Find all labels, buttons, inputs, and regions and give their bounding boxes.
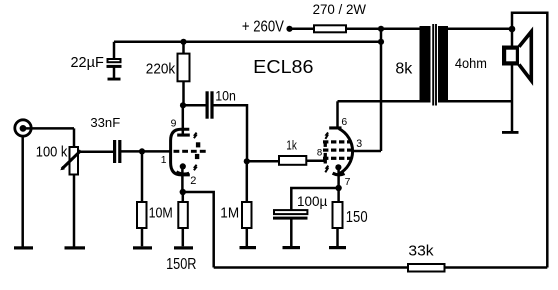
potentiometer 100k body xyxy=(70,147,79,175)
wire cathode node to 100u xyxy=(291,188,338,210)
capacitor 22uF plate - xyxy=(107,65,122,68)
wire 1M top lead xyxy=(246,161,249,201)
node triode anode junction xyxy=(180,102,186,108)
svg-text:7: 7 xyxy=(345,177,351,188)
wire jack to volume pot xyxy=(23,127,74,130)
wire pentode cathode lead xyxy=(337,167,340,188)
tube pentode cathode pin 7 xyxy=(335,164,341,170)
svg-text:ECL86: ECL86 xyxy=(253,57,313,77)
capacitor 22uF plate + xyxy=(108,59,121,62)
tube triode envelope dash bolt bottom xyxy=(194,165,197,171)
node speaker top junction xyxy=(509,26,516,33)
tube pentode envelope dash bar 1 xyxy=(324,141,327,147)
tube pentode envelope dash bolt bottom xyxy=(325,166,328,173)
capacitor 22uF ground xyxy=(108,78,121,81)
wire jack ground lead xyxy=(21,136,24,247)
ground 150 xyxy=(329,246,346,249)
wire 220k bottom lead xyxy=(182,81,185,105)
svg-text:33k: 33k xyxy=(408,243,434,260)
wire pot wiper to 33nF xyxy=(79,151,114,154)
ground jack xyxy=(14,246,33,249)
svg-text:10n: 10n xyxy=(215,88,236,104)
node triode cathode junction xyxy=(180,189,186,195)
svg-text:100 k: 100 k xyxy=(36,145,68,161)
wire pentode anode lead xyxy=(336,101,339,127)
node pentode cathode junction xyxy=(335,185,341,191)
wire 22uF bottom lead xyxy=(113,68,116,79)
node +260V terminal xyxy=(286,26,292,32)
wire speaker top lead xyxy=(511,29,514,46)
ground 100u xyxy=(283,246,301,249)
resistor 33k xyxy=(408,264,445,272)
resistor 150R xyxy=(178,202,188,228)
node B+ junction top xyxy=(378,26,384,32)
svg-text:1k: 1k xyxy=(286,138,297,153)
tube triode grid dashes pin 1 xyxy=(174,150,206,153)
svg-text:4ohm: 4ohm xyxy=(455,55,487,71)
wire cathode node to feedback drop xyxy=(182,192,213,268)
tube triode anode pin 9 xyxy=(177,134,190,137)
capacitor 10n xyxy=(206,91,209,118)
node 220k rail junction xyxy=(180,39,186,45)
wire 150 bottom lead xyxy=(336,228,339,246)
wire 10n cap to pentode grid node xyxy=(213,105,247,161)
potentiometer wiper arrow xyxy=(62,151,81,169)
tube triode V1a envelope xyxy=(171,129,190,175)
svg-text:33nF: 33nF xyxy=(90,115,120,130)
speaker driver xyxy=(504,48,518,64)
tube pentode envelope dash bar 2 + grid lead xyxy=(324,153,327,164)
resistor 10M xyxy=(137,202,147,228)
resistor 270/2W xyxy=(314,25,346,32)
svg-text:+ 260V: + 260V xyxy=(242,19,285,36)
ground pot xyxy=(65,246,86,249)
wire 22uF top lead xyxy=(113,42,116,59)
tube triode envelope dash bolt top xyxy=(194,133,197,139)
wire screen supply vertical x=381 xyxy=(380,29,383,151)
wire 220k top lead xyxy=(182,42,185,54)
op transformer primary winding xyxy=(420,26,431,103)
wire triode cathode lead xyxy=(181,166,184,192)
resistor 1M xyxy=(242,202,252,228)
svg-text:220k: 220k xyxy=(146,61,176,78)
wire 10M top lead xyxy=(141,151,144,201)
wire 10M bottom lead xyxy=(141,228,144,246)
wire pot bottom lead xyxy=(73,175,76,247)
svg-text:8k: 8k xyxy=(395,61,412,78)
wire 150R top lead xyxy=(182,192,185,202)
ground speaker xyxy=(502,131,519,134)
speaker cone xyxy=(519,32,531,81)
svg-text:6: 6 xyxy=(341,117,347,128)
wire secondary top to speaker node xyxy=(448,28,512,31)
capacitor 100u plate + xyxy=(274,210,307,214)
svg-text:150: 150 xyxy=(346,209,368,226)
wire pentode anode to primary bottom xyxy=(338,100,420,103)
svg-text:9: 9 xyxy=(171,118,177,129)
wire node A to 10n cap xyxy=(183,104,206,107)
node triode grid junction xyxy=(139,148,145,154)
wire speaker bottom lead to ground xyxy=(511,65,514,132)
wire triode anode lead xyxy=(182,105,185,134)
op transformer secondary winding xyxy=(438,26,448,103)
wire filtered B+ rail y=42 xyxy=(114,41,381,44)
svg-text:2: 2 xyxy=(190,175,196,187)
ground 150R xyxy=(174,246,193,249)
tube pentode anode pin 6 xyxy=(329,126,341,129)
wire +260V rail to transformer primary top xyxy=(290,28,420,31)
ground 10M xyxy=(133,246,152,249)
wire 100u bottom lead xyxy=(290,219,293,246)
wire feedback top run xyxy=(512,13,547,268)
resistor 1k xyxy=(279,156,306,165)
node B+ rail junction xyxy=(378,39,384,45)
wire secondary bottom to speaker leg xyxy=(448,100,512,103)
wire pot top lead xyxy=(73,128,76,146)
capacitor 33nF xyxy=(113,140,116,163)
resistor 150 xyxy=(333,202,343,228)
ground 1M xyxy=(240,246,257,249)
tube pentode V1b envelope xyxy=(339,129,353,174)
wire screen pin 3 xyxy=(352,150,381,153)
wire 33nF to triode grid xyxy=(121,150,171,153)
svg-text:8: 8 xyxy=(317,147,322,158)
svg-text:1: 1 xyxy=(161,155,167,166)
capacitor 100u plate - xyxy=(273,217,308,220)
node pentode grid junction xyxy=(244,158,250,164)
resistor 220k xyxy=(178,54,190,82)
tube pentode grid dashes xyxy=(323,142,352,158)
tube pentode envelope dash bolt top xyxy=(325,133,328,139)
tube triode envelope dash square 1 xyxy=(196,142,200,147)
wire 1M bottom lead xyxy=(246,228,249,246)
wire 150 top lead xyxy=(337,188,340,202)
input jack xyxy=(15,120,31,136)
svg-text:1M: 1M xyxy=(220,204,239,221)
wire 150R bottom lead xyxy=(182,228,185,246)
op transformer core xyxy=(432,24,434,106)
wire feedback bottom run right of 33k xyxy=(446,266,548,269)
svg-text:100µ: 100µ xyxy=(297,193,327,209)
svg-text:3: 3 xyxy=(356,138,362,150)
svg-text:270 / 2W: 270 / 2W xyxy=(313,1,367,17)
tube triode cathode pin 2 xyxy=(180,163,186,169)
wire grid node to 1k xyxy=(247,160,279,163)
wire 1k to pentode grid pin 8 xyxy=(307,160,326,163)
wire feedback bottom rail left of 33k xyxy=(214,266,407,269)
tube triode envelope dash square 2 xyxy=(195,154,199,159)
svg-text:150R: 150R xyxy=(166,256,196,273)
svg-text:22µF: 22µF xyxy=(71,55,104,71)
svg-text:10M: 10M xyxy=(149,204,173,221)
